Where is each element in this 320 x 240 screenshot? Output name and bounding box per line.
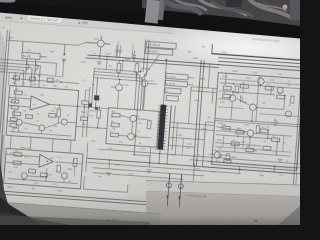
frame left double bbox=[0, 30, 7, 191]
label box 1 bbox=[146, 41, 176, 49]
box R bottom double bbox=[208, 162, 297, 169]
wires box A bbox=[7, 120, 16, 123]
diodes right bbox=[240, 95, 243, 102]
sub-circuit box R outer bbox=[212, 73, 304, 171]
wire bundle left long bbox=[0, 58, 57, 63]
dark component blob bbox=[94, 95, 99, 100]
resistor RA1 bbox=[14, 91, 22, 95]
dropper component 1 bbox=[166, 173, 171, 206]
ic pin box 1 bbox=[166, 73, 188, 80]
wire right of bar 2 bbox=[172, 106, 175, 151]
transistor QR1 bbox=[257, 78, 264, 85]
junction dots bbox=[106, 56, 107, 57]
wire rail long37 bbox=[85, 58, 219, 68]
wire bbox=[9, 136, 12, 149]
transistor QC1 bbox=[130, 115, 137, 122]
extra wires bottom left bbox=[0, 135, 3, 191]
connector bar (filled) bbox=[157, 105, 166, 150]
capacitor CB1 bbox=[57, 165, 61, 172]
components box B extra bbox=[29, 169, 36, 173]
extra caps right bbox=[235, 86, 239, 93]
bottom-left dark corner bbox=[0, 197, 42, 225]
wire top-left rail bbox=[6, 40, 78, 45]
capacitor bbox=[29, 77, 35, 81]
wires box R bbox=[220, 83, 301, 89]
transistor QR4 bbox=[247, 130, 254, 137]
wire parallel to bar bbox=[168, 105, 171, 150]
bottom-right corner shade bbox=[278, 206, 300, 225]
scan page edge L2 (right) bbox=[146, 181, 300, 197]
transistor QM1 bbox=[115, 84, 122, 91]
ic pin box 4 bbox=[166, 95, 178, 101]
dark band above toolbar (browser/bezel) bbox=[0, 0, 320, 36]
sub-circuit box A bbox=[6, 85, 78, 140]
resistor box B+ bbox=[22, 52, 40, 59]
wire verticals left of bundle bbox=[92, 69, 95, 107]
op-amp U1 bbox=[30, 96, 50, 111]
capacitor CA1 bbox=[57, 109, 61, 117]
wires into box R bbox=[171, 122, 215, 125]
twin verticals bbox=[193, 60, 201, 166]
capacitor single bbox=[133, 50, 135, 55]
transistor QA3 bbox=[61, 119, 67, 125]
extra components between A and C bbox=[82, 101, 89, 105]
ic pin box 3 bbox=[165, 88, 181, 94]
transistor QA1 bbox=[16, 119, 22, 125]
frame right double bbox=[291, 60, 302, 212]
wire opamp out bbox=[50, 104, 78, 106]
ic pin box 2 bbox=[165, 80, 187, 87]
wire bundle center verticals bbox=[133, 108, 135, 111]
frame bottom double bbox=[0, 191, 298, 213]
wires box B lower bbox=[8, 179, 78, 184]
capacitor bbox=[13, 76, 19, 80]
box R vertical divider bbox=[256, 76, 259, 122]
extra wires right section bbox=[220, 79, 256, 82]
resistors box C bbox=[112, 113, 120, 117]
arrow marks bbox=[139, 70, 141, 73]
page bottom edge L1 (left) bbox=[0, 202, 160, 225]
label box 2 bbox=[146, 48, 173, 55]
extra verticals right of bar bbox=[189, 91, 191, 124]
left edge vignette bbox=[0, 30, 5, 175]
wire lower rail 1 bbox=[87, 158, 301, 174]
small circles junctions bbox=[84, 106, 85, 107]
extra mid-left wires bbox=[48, 76, 63, 77]
wire bar bottom bbox=[159, 150, 160, 164]
dropper component 2 bbox=[178, 174, 183, 207]
cap box C bbox=[147, 121, 151, 129]
capacitor pair bbox=[116, 45, 118, 50]
wire stub below frame bbox=[166, 206, 168, 210]
transistor Q1 bbox=[97, 40, 104, 47]
resistors box R top bbox=[223, 86, 231, 90]
wire lower bbox=[14, 73, 48, 75]
wire bundle center bbox=[94, 69, 137, 72]
pointer line bbox=[141, 53, 159, 81]
transistor QR3 bbox=[249, 104, 256, 111]
transistor QC2 bbox=[127, 133, 134, 140]
ground symbols bbox=[61, 59, 66, 62]
extra vertical center-left bbox=[86, 87, 90, 137]
transistor QB1 bbox=[21, 172, 27, 178]
wire rail bus3 bbox=[218, 61, 309, 68]
vert wires below toolbar bbox=[117, 41, 118, 57]
room top-right with cables bbox=[142, 0, 300, 26]
dropper wires upper bbox=[169, 173, 170, 187]
wire bbox=[134, 155, 150, 156]
diode D1 bbox=[26, 63, 30, 71]
resistor vertical bbox=[135, 64, 139, 73]
connector bar ticks bbox=[158, 105, 160, 107]
long verticals x147 bbox=[143, 39, 145, 72]
lower right sub-box bbox=[202, 122, 205, 167]
resistor near QL1 bbox=[224, 159, 231, 163]
capacitor bbox=[47, 78, 53, 82]
left edge dark strip bbox=[0, 160, 16, 218]
wire lower rail 4 bbox=[93, 173, 184, 180]
wire lower rail 2 bbox=[86, 162, 241, 173]
bottom-left deep shade bbox=[0, 215, 150, 225]
wire bbox=[21, 41, 24, 52]
rails mid lower bbox=[102, 149, 299, 164]
wire rail seg2 bbox=[86, 41, 97, 44]
extra wires top bbox=[105, 56, 108, 69]
transistor QM2 bbox=[141, 80, 148, 87]
transistor QR6 bbox=[285, 111, 291, 117]
margin shading below frame bbox=[0, 188, 320, 240]
sub-circuit box C bbox=[106, 108, 159, 148]
wire rail bus2 bbox=[218, 58, 309, 65]
transistor QA2 bbox=[39, 125, 45, 131]
rail verticals bbox=[86, 142, 88, 172]
resistor RA4 bbox=[25, 115, 32, 119]
resistor RB2 bbox=[13, 161, 21, 165]
transistor QB2 bbox=[61, 172, 67, 178]
resistor RA3 bbox=[49, 113, 56, 117]
transistor QL1 bbox=[214, 151, 221, 158]
toolbar strip bbox=[0, 9, 175, 34]
wire bundle left bbox=[0, 62, 40, 66]
resistors box R bottom bbox=[222, 126, 230, 130]
wire rail A thick bbox=[212, 54, 310, 61]
resistor RB1 bbox=[14, 152, 22, 156]
gap wires bbox=[175, 123, 177, 155]
box R divider bbox=[215, 119, 300, 125]
glare top right of page bbox=[162, 20, 320, 76]
wire row bbox=[10, 78, 79, 83]
op-amp U2 bbox=[39, 154, 54, 168]
transistor QR2 bbox=[229, 95, 236, 102]
resistor vertical 2 bbox=[117, 63, 121, 72]
top-left room sliver bbox=[0, 0, 16, 3]
wires ic boxes bbox=[163, 61, 166, 105]
arrow wire down bbox=[63, 44, 66, 55]
sub-circuit box B bbox=[4, 148, 83, 189]
wire opamp in bbox=[9, 97, 31, 99]
resistor RA2 bbox=[13, 112, 21, 116]
wire rail long34 bbox=[87, 55, 308, 71]
wire lower rail 3 bbox=[93, 168, 204, 176]
transistor QR5 bbox=[277, 87, 283, 93]
resistor stack A bbox=[12, 100, 19, 104]
diode D2 bbox=[35, 63, 39, 71]
wires U2 bbox=[6, 154, 39, 156]
bezel wedge bbox=[0, 2, 300, 38]
wires box C bbox=[120, 116, 130, 118]
frame extra verticals bbox=[7, 72, 10, 85]
